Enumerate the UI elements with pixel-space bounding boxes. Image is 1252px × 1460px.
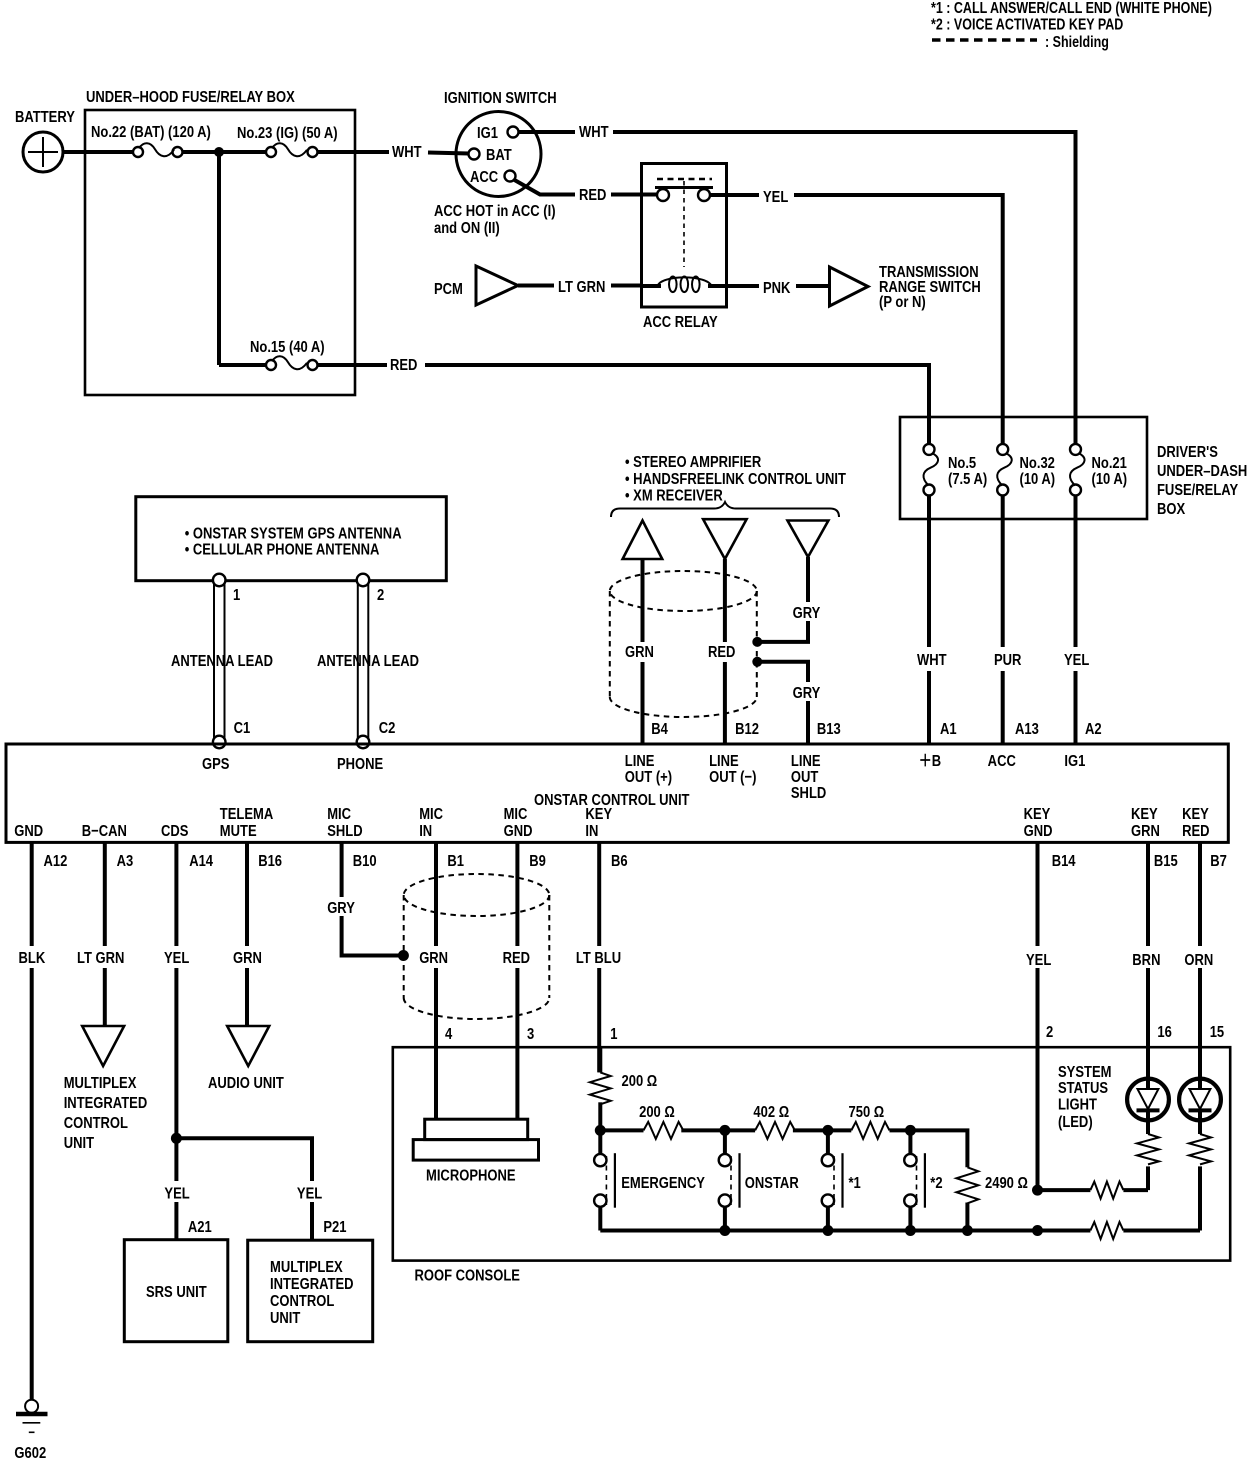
PCM output arrow — [476, 266, 518, 305]
svg-text:GND: GND — [14, 823, 43, 840]
svg-text:ACC RELAY: ACC RELAY — [643, 314, 718, 331]
LED 2 resistor — [1189, 1134, 1211, 1164]
svg-text:LINE: LINE — [791, 753, 821, 770]
junction YEL split — [171, 1133, 182, 1144]
svg-text:OUT (+): OUT (+) — [625, 769, 672, 786]
svg-text:(P or N): (P or N) — [879, 294, 926, 311]
junction top bus at *2 — [905, 1125, 916, 1136]
svg-text:IGNITION SWITCH: IGNITION SWITCH — [444, 90, 557, 107]
svg-text:15: 15 — [1210, 1024, 1224, 1041]
acc relay dashed link — [683, 181, 685, 267]
wire YEL to SRS unit — [174, 1202, 178, 1240]
legend shielding dashed sample — [932, 38, 1037, 42]
svg-text:RED: RED — [503, 950, 530, 967]
resistor 402 ohm (horizontal) — [725, 1128, 755, 1132]
fuse No.21 — [1074, 417, 1078, 444]
wire MIC IN B1 GRN to microphone — [434, 842, 438, 946]
svg-text:A13: A13 — [1015, 721, 1039, 738]
wire CDS A14 YEL — [174, 842, 178, 946]
wire YEL branch to multiplex box — [310, 1202, 314, 1240]
wire resistor to junction — [598, 1102, 602, 1133]
svg-text:LINE: LINE — [625, 753, 655, 770]
antenna lead 2 (coax) — [357, 584, 359, 738]
svg-text:GRN: GRN — [233, 950, 262, 967]
svg-text:B1: B1 — [447, 853, 464, 870]
top bus segment with 200 ohm resistor — [600, 1128, 643, 1132]
onstar control unit box — [6, 744, 1228, 842]
wire GRN line out + — [641, 559, 645, 642]
ignition pin IG1 — [508, 127, 519, 138]
LED 2 (KEY RED) — [1179, 1079, 1221, 1121]
svg-text:GRN: GRN — [1131, 823, 1160, 840]
svg-text:ACC HOT in ACC (I): ACC HOT in ACC (I) — [434, 203, 556, 220]
svg-text:C2: C2 — [379, 720, 396, 737]
wire fuse No.22 to No.23 with junction — [183, 150, 267, 154]
svg-text:GND: GND — [1024, 823, 1053, 840]
svg-text:IG1: IG1 — [477, 125, 498, 142]
switch EMERGENCY — [598, 1130, 602, 1154]
svg-text:SRS UNIT: SRS UNIT — [146, 1284, 207, 1301]
junction bottom bus at *1 — [822, 1225, 833, 1236]
acc relay contact terminals — [657, 189, 669, 201]
svg-text:PUR: PUR — [994, 652, 1022, 669]
svg-text:STATUS: STATUS — [1058, 1080, 1108, 1098]
ignition pin ACC — [505, 171, 516, 182]
wire battery to fuse No.22 — [63, 150, 133, 154]
svg-text:B13: B13 — [817, 721, 841, 738]
svg-text:B14: B14 — [1052, 853, 1076, 870]
svg-text:KEY: KEY — [1024, 806, 1051, 823]
svg-text:GRN: GRN — [419, 950, 448, 967]
wire MIC GND B9 RED to microphone — [515, 842, 519, 946]
svg-text:SHLD: SHLD — [791, 785, 826, 802]
svg-text:B10: B10 — [353, 853, 377, 870]
svg-text:WHT: WHT — [392, 144, 422, 161]
svg-text:PHONE: PHONE — [337, 756, 384, 773]
svg-text:YEL: YEL — [1064, 652, 1089, 669]
antenna unit box — [136, 497, 447, 581]
svg-text:UNDER–DASH: UNDER–DASH — [1157, 463, 1247, 480]
wire YEL branch to P21 — [176, 1138, 312, 1181]
fuse No.22 — [133, 147, 143, 157]
svg-text:: Shielding: : Shielding — [1045, 33, 1109, 50]
svg-text:LT GRN: LT GRN — [77, 950, 124, 967]
svg-text:DRIVER'S: DRIVER'S — [1157, 444, 1218, 461]
fuse No.32 — [1001, 417, 1005, 444]
svg-text:RED: RED — [579, 187, 606, 204]
junction bottom bus / key gnd — [1032, 1225, 1043, 1236]
fuse No.15 — [266, 360, 276, 370]
svg-text:WHT: WHT — [917, 652, 947, 669]
junction on mic shield — [398, 950, 409, 961]
wire fuse No.23 to WHT label — [318, 150, 390, 154]
svg-text:RED: RED — [1182, 823, 1209, 840]
arrow down (line out shld) — [788, 521, 829, 558]
svg-text:GRY: GRY — [327, 900, 355, 917]
arrow down from stereo (line out -) — [703, 519, 747, 559]
svg-text:• HANDSFREELINK CONTROL UNIT: • HANDSFREELINK CONTROL UNIT — [625, 471, 846, 488]
svg-text:SYSTEM: SYSTEM — [1058, 1064, 1111, 1081]
svg-text:(7.5 A): (7.5 A) — [948, 471, 987, 488]
wire fuse No.32 to control unit ACC — [1001, 519, 1005, 647]
svg-text:B7: B7 — [1210, 853, 1227, 870]
svg-text:1: 1 — [233, 587, 240, 604]
SRS unit box — [124, 1240, 228, 1342]
svg-text:MULTIPLEX: MULTIPLEX — [270, 1259, 343, 1276]
wire junction to resistor (led2 return) — [1038, 1229, 1091, 1233]
svg-text:TELEMA: TELEMA — [220, 806, 274, 823]
wire 2490 to bottom bus — [965, 1203, 969, 1231]
svg-text:MIC: MIC — [504, 806, 528, 823]
wire PCM to LT GRN label — [518, 284, 554, 288]
junction bottom bus at *2 — [905, 1225, 916, 1236]
svg-text:UNIT: UNIT — [270, 1310, 300, 1327]
wire MIC SHLD B10 GRY — [340, 842, 344, 897]
ignition pin BAT — [469, 149, 480, 160]
ignition switch — [456, 112, 541, 197]
svg-text:A3: A3 — [117, 853, 134, 870]
wire junction to resistor (led1 return) — [1038, 1188, 1091, 1192]
wire KEY RED B7 ORN — [1198, 842, 1202, 946]
svg-text:1: 1 — [610, 1026, 617, 1043]
svg-text:LINE: LINE — [709, 753, 739, 770]
acc relay contact bar — [655, 186, 713, 189]
svg-text:ACC: ACC — [470, 169, 499, 186]
svg-text:MIC: MIC — [419, 806, 443, 823]
svg-text:*2 : VOICE ACTIVATED KEY PAD: *2 : VOICE ACTIVATED KEY PAD — [931, 15, 1123, 32]
resistor (horizontal, led1 return) — [1090, 1182, 1123, 1199]
svg-text:ANTENNA LEAD: ANTENNA LEAD — [171, 653, 273, 670]
wire RED to ACC relay contact — [611, 193, 657, 197]
svg-text:A12: A12 — [44, 853, 68, 870]
svg-text:SHLD: SHLD — [327, 823, 362, 840]
svg-text:200 Ω: 200 Ω — [639, 1104, 675, 1121]
svg-text:C1: C1 — [234, 720, 251, 737]
wire WHT long run to driver's box fuse No.21 — [613, 132, 1076, 418]
svg-text:RED: RED — [390, 357, 417, 374]
svg-text:*1: *1 — [849, 1175, 861, 1192]
junction key gnd / led1 — [1032, 1185, 1043, 1196]
roof console box — [393, 1047, 1230, 1260]
top bus to onstar junction — [681, 1128, 725, 1132]
svg-text:750 Ω: 750 Ω — [849, 1104, 885, 1121]
svg-text:GRY: GRY — [793, 685, 821, 702]
svg-text:＋B: ＋B — [919, 753, 941, 770]
wire IG1 to WHT label — [519, 130, 576, 134]
svg-text:GPS: GPS — [202, 756, 230, 773]
svg-text:A21: A21 — [188, 1219, 212, 1236]
svg-text:• ONSTAR SYSTEM GPS ANTENNA: • ONSTAR SYSTEM GPS ANTENNA — [185, 525, 402, 542]
wire PNK to transmission arrow — [796, 284, 830, 288]
svg-text:P21: P21 — [323, 1219, 346, 1236]
svg-text:• XM RECEIVER: • XM RECEIVER — [625, 487, 723, 504]
wire TELEMA MUTE B16 GRN — [245, 842, 249, 946]
LED 1 resistor — [1137, 1134, 1159, 1164]
svg-text:2490 Ω: 2490 Ω — [985, 1175, 1028, 1192]
microphone body — [425, 1119, 528, 1139]
wire GRY shield upper — [806, 557, 810, 602]
svg-text:FUSE/RELAY: FUSE/RELAY — [1157, 482, 1238, 499]
LED 1 (KEY GRN) — [1127, 1079, 1169, 1121]
svg-text:GRN: GRN — [625, 644, 654, 661]
svg-text:LT BLU: LT BLU — [576, 950, 621, 967]
svg-text:RED: RED — [708, 644, 735, 661]
wire fuse No.21 to control unit IG1 — [1074, 519, 1078, 647]
svg-text:UNDER–HOOD FUSE/RELAY BOX: UNDER–HOOD FUSE/RELAY BOX — [86, 89, 295, 106]
shielding cylinder (microphone lines) — [404, 874, 550, 1019]
svg-text:200 Ω: 200 Ω — [622, 1073, 658, 1091]
svg-text:No.22 (BAT) (120 A): No.22 (BAT) (120 A) — [91, 124, 211, 141]
svg-text:No.5: No.5 — [948, 455, 976, 472]
svg-text:CONTROL: CONTROL — [270, 1293, 334, 1310]
junction top bus at *1 — [822, 1125, 833, 1136]
svg-text:4: 4 — [445, 1026, 452, 1043]
svg-text:A2: A2 — [1085, 721, 1102, 738]
svg-text:No.15 (40 A): No.15 (40 A) — [250, 339, 325, 356]
svg-text:AUDIO UNIT: AUDIO UNIT — [208, 1075, 284, 1092]
svg-text:(10 A): (10 A) — [1020, 471, 1056, 488]
wire B-CAN A3 LT GRN — [103, 842, 107, 946]
svg-text:B6: B6 — [611, 853, 628, 870]
svg-text:BAT: BAT — [486, 147, 512, 164]
svg-text:No.21: No.21 — [1092, 455, 1127, 472]
svg-text:BOX: BOX — [1157, 501, 1185, 518]
svg-text:B16: B16 — [258, 853, 282, 870]
arrow to multiplex integrated control unit — [82, 1026, 124, 1066]
svg-text:MIC: MIC — [327, 806, 351, 823]
svg-text:No.23 (IG) (50 A): No.23 (IG) (50 A) — [237, 125, 338, 142]
svg-text:B−CAN: B−CAN — [82, 823, 127, 840]
svg-text:B4: B4 — [651, 721, 668, 738]
svg-text:BRN: BRN — [1132, 952, 1160, 969]
svg-text:YEL: YEL — [763, 189, 788, 206]
wire KEY IN B6 LT BLU — [597, 842, 601, 946]
antenna lead 1 (coax) — [213, 584, 215, 738]
svg-text:ROOF CONSOLE: ROOF CONSOLE — [415, 1267, 521, 1284]
acc relay contact dashed armature — [657, 178, 712, 181]
svg-text:YEL: YEL — [297, 1185, 322, 1202]
svg-text:ORN: ORN — [1184, 952, 1213, 969]
svg-text:MICROPHONE: MICROPHONE — [426, 1167, 516, 1184]
svg-text:KEY: KEY — [1131, 806, 1158, 823]
resistor 200 ohm (vertical) — [590, 1072, 611, 1104]
wire LED2 resistor down to bus — [1198, 1166, 1202, 1230]
battery — [23, 132, 63, 172]
wire GRY elbow to mic shield — [342, 916, 400, 956]
switch ONSTAR — [723, 1130, 727, 1154]
svg-text:INTEGRATED: INTEGRATED — [270, 1276, 354, 1293]
svg-text:IG1: IG1 — [1064, 753, 1085, 770]
acc relay coil — [642, 284, 662, 288]
switch *1 — [826, 1130, 830, 1154]
svg-text:16: 16 — [1157, 1024, 1171, 1041]
svg-text:GND: GND — [504, 823, 533, 840]
svg-text:• STEREO AMPRIFIER: • STEREO AMPRIFIER — [625, 454, 762, 471]
switch *2 — [908, 1130, 912, 1154]
junction on shield upper — [752, 637, 762, 647]
wire coil to PNK label — [727, 284, 760, 288]
svg-text:KEY: KEY — [585, 806, 612, 823]
fuse No.23 — [266, 147, 276, 157]
svg-text:A1: A1 — [940, 721, 957, 738]
svg-text:INTEGRATED: INTEGRATED — [64, 1095, 148, 1112]
wire ACC diagonal to RED label — [515, 180, 576, 195]
svg-text:402 Ω: 402 Ω — [753, 1104, 789, 1121]
svg-text:MULTIPLEX: MULTIPLEX — [64, 1075, 137, 1092]
resistor 2490 ohm (vertical) — [956, 1167, 978, 1203]
svg-text:(LED): (LED) — [1058, 1114, 1093, 1131]
svg-text:CONTROL: CONTROL — [64, 1115, 128, 1132]
wire fuse No.15 to RED label — [318, 363, 388, 367]
svg-text:No.32: No.32 — [1020, 455, 1055, 472]
svg-text:A14: A14 — [189, 853, 213, 870]
wire LT GRN to relay coil — [611, 284, 642, 288]
brace — [611, 502, 839, 517]
wire LED1 resistor down to junction — [1146, 1166, 1150, 1190]
wire YEL long run to driver's box fuse No.32 — [794, 195, 1003, 418]
svg-text:ANTENNA LEAD: ANTENNA LEAD — [317, 653, 419, 670]
ground G602 — [25, 1400, 38, 1413]
arrow up to stereo (line out +) — [623, 521, 663, 560]
junction on shield lower — [752, 657, 762, 667]
svg-text:OUT (−): OUT (−) — [709, 769, 756, 786]
driver's under-dash fuse/relay box — [900, 417, 1147, 519]
wire WHT to ignition BAT pin — [428, 153, 469, 154]
svg-text:B15: B15 — [1154, 853, 1178, 870]
svg-text:3: 3 — [527, 1026, 534, 1043]
svg-text:CDS: CDS — [161, 823, 189, 840]
svg-text:GRY: GRY — [793, 605, 821, 622]
svg-text:ONSTAR: ONSTAR — [745, 1175, 799, 1192]
wire RED to driver's box fuse No.5 — [425, 365, 929, 418]
junction bottom bus at 2490 — [962, 1225, 973, 1236]
svg-text:*2: *2 — [930, 1175, 942, 1192]
svg-text:YEL: YEL — [1026, 952, 1051, 969]
resistor 200 ohm (horizontal) — [644, 1122, 684, 1139]
resistor (horizontal, led2 return) — [1090, 1222, 1123, 1239]
junction bottom bus at onstar — [719, 1225, 730, 1236]
svg-text:2: 2 — [1046, 1024, 1053, 1041]
svg-text:and ON (II): and ON (II) — [434, 220, 500, 237]
svg-text:OUT: OUT — [791, 769, 819, 786]
arrow to audio unit — [227, 1026, 269, 1066]
under-hood fuse/relay box — [85, 110, 355, 395]
svg-text:G602: G602 — [14, 1445, 46, 1460]
wire RED line out - — [723, 559, 727, 642]
svg-text:ACC: ACC — [988, 753, 1017, 770]
svg-text:BLK: BLK — [19, 950, 46, 967]
svg-text:*1 : CALL ANSWER/CALL END (WHI: *1 : CALL ANSWER/CALL END (WHITE PHONE) — [931, 0, 1212, 16]
svg-text:IN: IN — [419, 823, 432, 840]
svg-text:IN: IN — [585, 823, 598, 840]
wire fuse No.5 to control unit +B — [927, 519, 931, 647]
svg-text:YEL: YEL — [164, 1185, 189, 1202]
wire relay contact to YEL label — [710, 193, 759, 197]
top bus to *2 junction — [890, 1128, 911, 1132]
svg-text:KEY: KEY — [1182, 806, 1209, 823]
svg-text:WHT: WHT — [579, 124, 609, 141]
resistor 750 ohm (horizontal) — [828, 1128, 851, 1132]
svg-text:• CELLULAR PHONE ANTENNA: • CELLULAR PHONE ANTENNA — [185, 541, 380, 558]
svg-text:UNIT: UNIT — [64, 1135, 94, 1152]
bottom bus — [600, 1229, 1037, 1233]
transmission range switch arrow — [830, 267, 869, 306]
svg-text:PCM: PCM — [434, 281, 463, 298]
shielding cylinder (stereo lines) — [610, 571, 757, 717]
top bus corner to 2490 resistor — [910, 1130, 967, 1167]
svg-text:B12: B12 — [735, 721, 759, 738]
svg-text:MUTE: MUTE — [220, 823, 257, 840]
wire KEY GRN B15 BRN — [1146, 842, 1150, 946]
svg-text:2: 2 — [377, 587, 384, 604]
svg-text:PNK: PNK — [763, 280, 791, 297]
wire LT BLU into console to resistor — [598, 1047, 602, 1072]
wire junction down to fuse No.15 — [217, 152, 221, 365]
svg-text:LT GRN: LT GRN — [558, 279, 605, 296]
junction top bus at onstar — [719, 1125, 730, 1136]
top bus to *1 junction — [793, 1128, 828, 1132]
junction node at x219 — [214, 147, 224, 157]
fuse No.5 — [927, 417, 931, 444]
svg-text:(10 A): (10 A) — [1092, 471, 1128, 488]
multiplex integrated control unit box — [248, 1240, 373, 1342]
svg-text:EMERGENCY: EMERGENCY — [621, 1175, 705, 1192]
acc relay box — [642, 164, 727, 308]
svg-text:YEL: YEL — [164, 950, 189, 967]
svg-text:B9: B9 — [529, 853, 546, 870]
svg-text:BATTERY: BATTERY — [15, 109, 75, 126]
wire GRY shield lower to B13 — [760, 662, 808, 682]
svg-text:LIGHT: LIGHT — [1058, 1096, 1097, 1113]
junction top bus at emergency — [595, 1125, 606, 1136]
wire GND A12 BLK to ground — [30, 842, 34, 946]
wire KEY GND B14 YEL — [1036, 842, 1040, 946]
